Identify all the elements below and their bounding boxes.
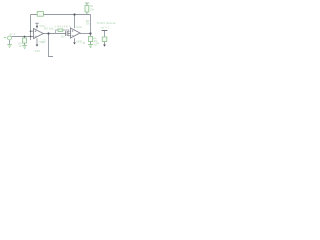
svg-text:C3: C3 [96,41,100,45]
svg-text:C2: C2 [43,38,47,42]
svg-text:-15V: -15V [34,49,40,53]
svg-text:R3 10k: R3 10k [44,26,54,30]
svg-text:U2A: U2A [76,25,82,29]
svg-text:TL072 Vout ac: TL072 Vout ac [97,21,117,25]
svg-text:10n: 10n [61,35,66,38]
svg-text:-15: -15 [82,41,86,45]
svg-text:1N4148: 1N4148 [55,25,68,29]
svg-text:ac 1: ac 1 [10,32,16,36]
svg-text:1M: 1M [86,21,90,25]
svg-text:ac 0.1: ac 0.1 [101,25,110,29]
